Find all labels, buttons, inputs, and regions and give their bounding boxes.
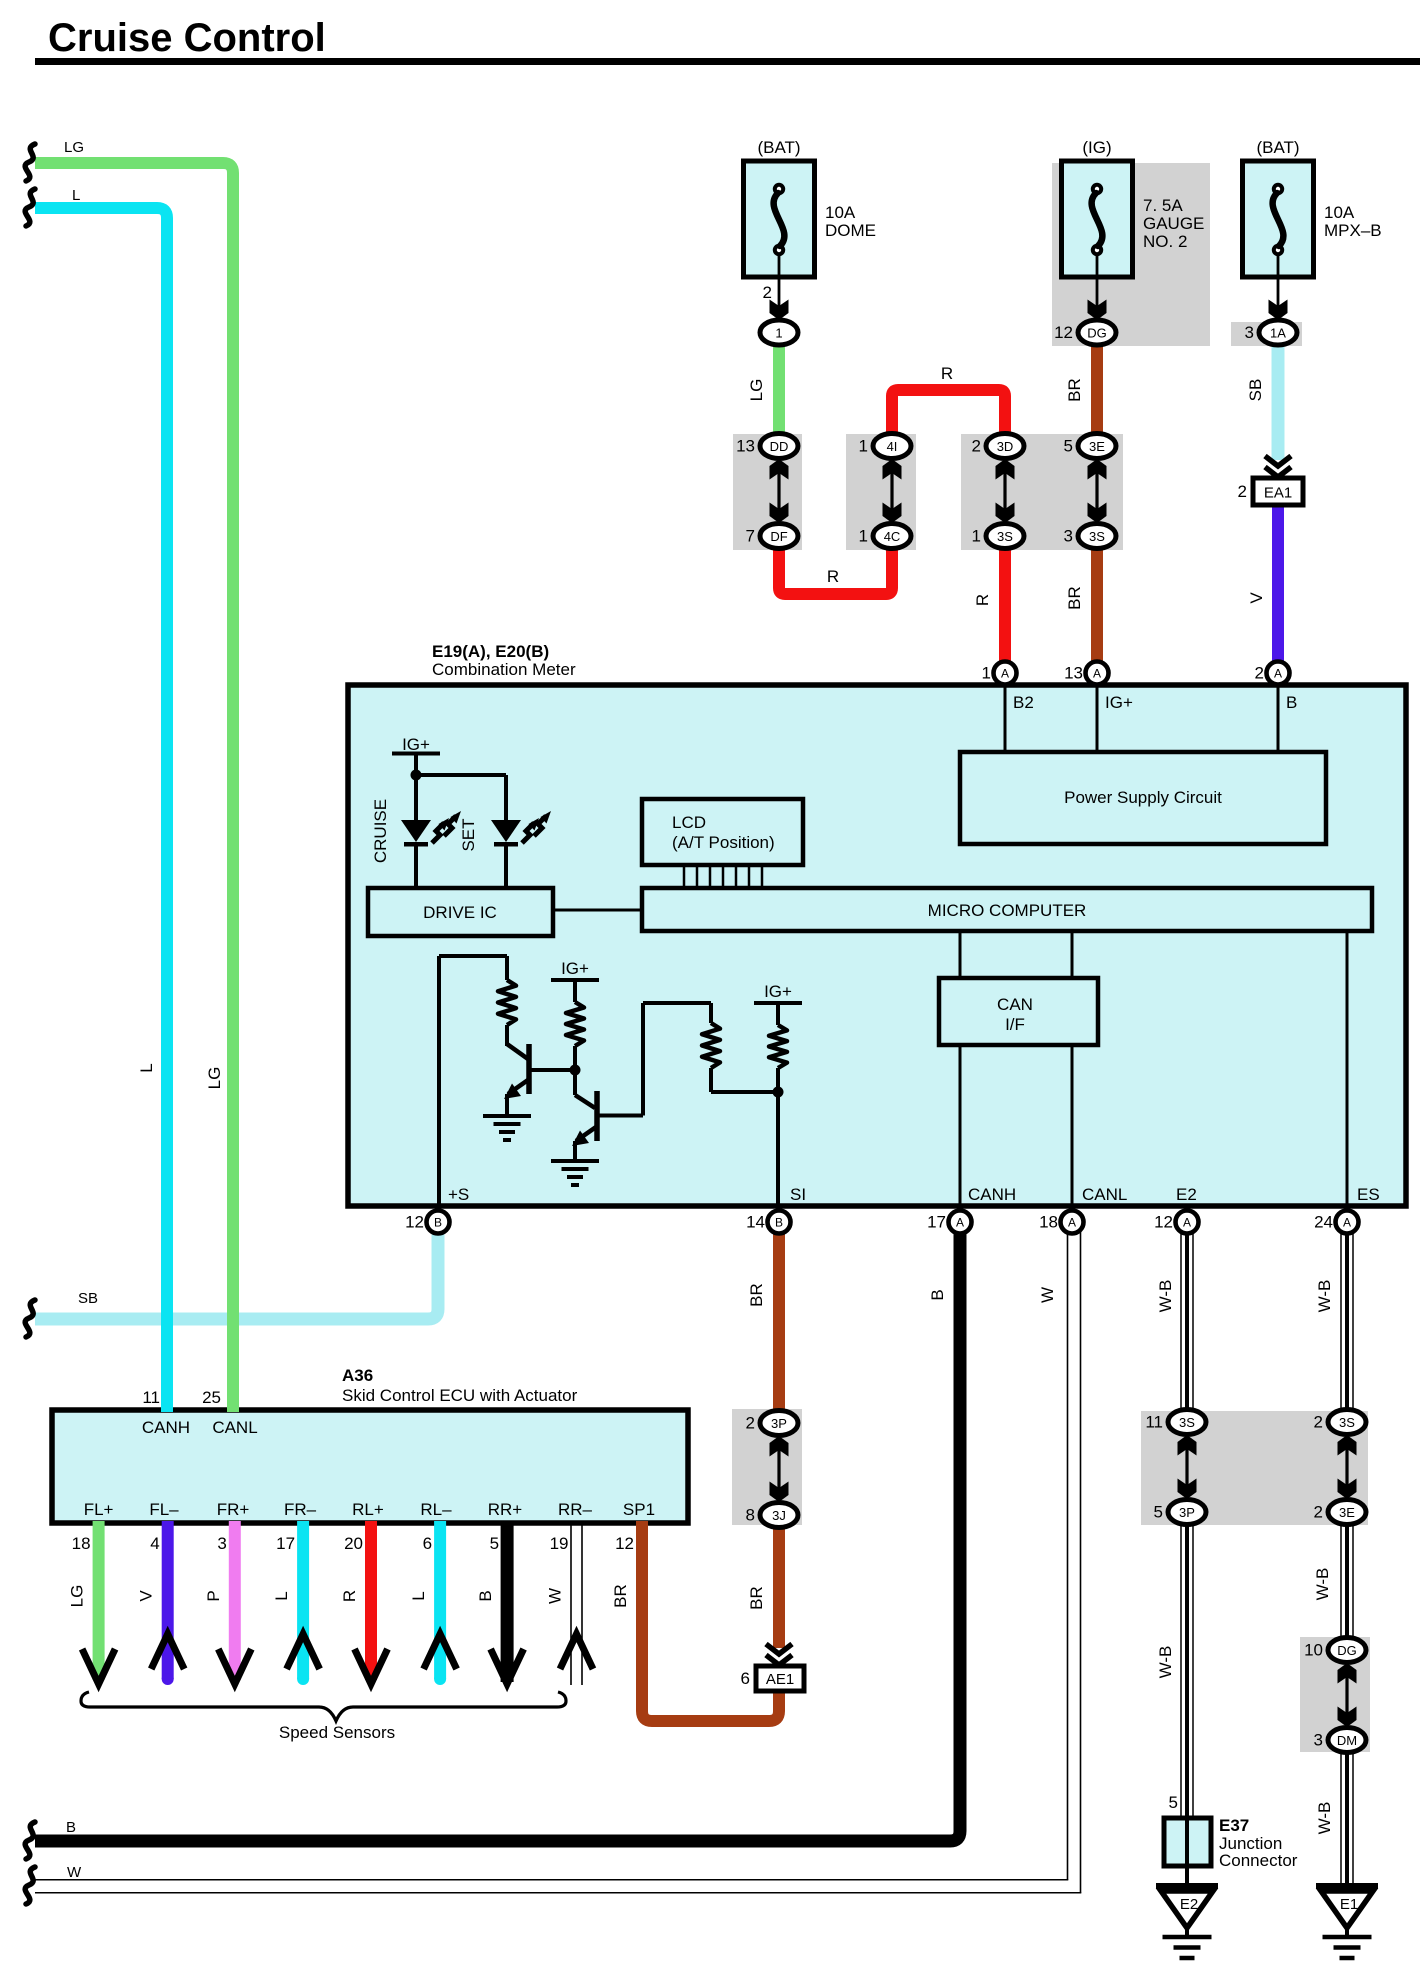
svg-text:3P: 3P [771, 1416, 787, 1431]
svg-text:CANL: CANL [212, 1418, 257, 1437]
svg-text:Cruise Control: Cruise Control [48, 16, 326, 60]
svg-text:4I: 4I [887, 439, 898, 454]
svg-text:LG: LG [747, 379, 766, 402]
svg-text:LG: LG [205, 1067, 224, 1090]
svg-text:DF: DF [770, 529, 787, 544]
svg-text:AE1: AE1 [766, 1671, 794, 1688]
svg-text:18: 18 [1039, 1213, 1058, 1232]
svg-text:SP1: SP1 [623, 1500, 655, 1519]
svg-text:SB: SB [1246, 379, 1265, 402]
svg-text:17: 17 [927, 1213, 946, 1232]
svg-text:B: B [928, 1289, 947, 1300]
svg-text:3J: 3J [772, 1508, 786, 1523]
svg-text:2: 2 [763, 283, 772, 302]
svg-text:3E: 3E [1089, 439, 1105, 454]
svg-text:8: 8 [746, 1506, 755, 1525]
svg-text:12: 12 [1154, 1213, 1173, 1232]
svg-text:R: R [340, 1590, 359, 1602]
svg-text:RL–: RL– [420, 1500, 452, 1519]
svg-text:B: B [66, 1819, 76, 1836]
svg-text:2: 2 [1314, 1503, 1323, 1522]
svg-text:6: 6 [741, 1669, 750, 1688]
svg-text:5: 5 [490, 1534, 499, 1553]
svg-text:B: B [476, 1590, 495, 1601]
svg-text:10: 10 [1304, 1641, 1323, 1660]
svg-text:25: 25 [202, 1388, 221, 1407]
svg-text:A36: A36 [342, 1366, 373, 1385]
svg-text:DRIVE IC: DRIVE IC [423, 903, 497, 922]
svg-text:E1: E1 [1340, 1896, 1358, 1913]
svg-text:IG+: IG+ [561, 959, 589, 978]
svg-text:2: 2 [1314, 1413, 1323, 1432]
svg-text:3S: 3S [1089, 529, 1105, 544]
svg-text:LCD: LCD [672, 813, 706, 832]
svg-text:W: W [1038, 1287, 1057, 1303]
svg-text:W: W [546, 1588, 565, 1604]
svg-text:W-B: W-B [1156, 1280, 1175, 1313]
svg-text:FR–: FR– [284, 1500, 317, 1519]
svg-text:10A: 10A [825, 203, 856, 222]
svg-text:A: A [1183, 1216, 1191, 1230]
svg-text:P: P [204, 1590, 223, 1601]
svg-text:GAUGE: GAUGE [1143, 214, 1204, 233]
svg-text:BR: BR [747, 1586, 766, 1610]
svg-text:A: A [1068, 1216, 1076, 1230]
svg-text:E19(A), E20(B): E19(A), E20(B) [432, 642, 549, 661]
svg-text:DOME: DOME [825, 221, 876, 240]
svg-text:W-B: W-B [1156, 1646, 1175, 1679]
svg-text:ES: ES [1357, 1185, 1380, 1204]
svg-text:R: R [827, 567, 839, 586]
svg-text:3: 3 [1064, 527, 1073, 546]
svg-text:4C: 4C [884, 529, 901, 544]
svg-text:Speed Sensors: Speed Sensors [279, 1723, 395, 1742]
svg-text:Connector: Connector [1219, 1851, 1298, 1870]
svg-text:FL–: FL– [149, 1500, 179, 1519]
svg-text:B2: B2 [1013, 693, 1034, 712]
svg-text:L: L [137, 1063, 156, 1072]
svg-text:2: 2 [1238, 482, 1247, 501]
svg-text:5: 5 [1169, 1793, 1178, 1812]
svg-text:1: 1 [775, 326, 782, 341]
svg-text:24: 24 [1314, 1213, 1333, 1232]
svg-text:E2: E2 [1180, 1896, 1198, 1913]
svg-text:5: 5 [1064, 437, 1073, 456]
svg-text:1: 1 [982, 664, 991, 683]
svg-text:LG: LG [68, 1585, 87, 1608]
svg-text:DD: DD [770, 439, 789, 454]
svg-text:(BAT): (BAT) [1256, 138, 1299, 157]
svg-text:DG: DG [1087, 326, 1107, 341]
svg-text:Skid Control ECU with Actuator: Skid Control ECU with Actuator [342, 1386, 578, 1405]
svg-text:7. 5A: 7. 5A [1143, 196, 1183, 215]
svg-text:14: 14 [746, 1213, 765, 1232]
svg-text:CAN: CAN [997, 995, 1033, 1014]
svg-text:A: A [1343, 1216, 1351, 1230]
svg-text:+S: +S [448, 1185, 469, 1204]
svg-text:3: 3 [217, 1534, 226, 1553]
svg-text:1: 1 [972, 527, 981, 546]
svg-text:(BAT): (BAT) [757, 138, 800, 157]
svg-text:NO. 2: NO. 2 [1143, 232, 1187, 251]
svg-text:IG+: IG+ [764, 982, 792, 1001]
svg-text:17: 17 [276, 1534, 295, 1553]
svg-text:CANH: CANH [142, 1418, 190, 1437]
svg-text:RR+: RR+ [488, 1500, 523, 1519]
svg-text:18: 18 [72, 1534, 91, 1553]
svg-text:5: 5 [1154, 1503, 1163, 1522]
svg-text:2: 2 [972, 437, 981, 456]
svg-text:BR: BR [747, 1283, 766, 1307]
svg-text:12: 12 [615, 1534, 634, 1553]
svg-text:W-B: W-B [1315, 1280, 1334, 1313]
svg-text:B: B [1286, 693, 1297, 712]
svg-text:13: 13 [736, 437, 755, 456]
svg-text:R: R [973, 594, 992, 606]
svg-text:10A: 10A [1324, 203, 1355, 222]
svg-text:12: 12 [1054, 323, 1073, 342]
svg-text:IG+: IG+ [402, 735, 430, 754]
svg-text:IG+: IG+ [1105, 693, 1133, 712]
svg-text:CANH: CANH [968, 1185, 1016, 1204]
svg-text:6: 6 [423, 1534, 432, 1553]
svg-text:W-B: W-B [1315, 1802, 1334, 1835]
svg-text:B: B [775, 1216, 783, 1230]
svg-text:MPX–B: MPX–B [1324, 221, 1382, 240]
svg-text:L: L [72, 187, 80, 204]
svg-text:4: 4 [150, 1534, 159, 1553]
svg-text:12: 12 [405, 1213, 424, 1232]
svg-text:V: V [137, 1590, 156, 1602]
svg-text:(IG): (IG) [1082, 138, 1111, 157]
svg-text:3P: 3P [1179, 1505, 1195, 1520]
svg-text:3: 3 [1245, 323, 1254, 342]
svg-text:E37: E37 [1219, 1816, 1249, 1835]
svg-text:3S: 3S [1339, 1415, 1355, 1430]
svg-text:L: L [409, 1591, 428, 1600]
svg-text:11: 11 [1145, 1413, 1163, 1432]
svg-text:A: A [1093, 667, 1101, 681]
svg-text:A: A [1274, 667, 1282, 681]
svg-text:BR: BR [611, 1584, 630, 1608]
svg-text:1A: 1A [1270, 326, 1286, 341]
svg-text:SI: SI [790, 1185, 806, 1204]
svg-text:CANL: CANL [1082, 1185, 1127, 1204]
svg-text:1: 1 [859, 437, 868, 456]
svg-text:Combination Meter: Combination Meter [432, 660, 576, 679]
svg-text:20: 20 [344, 1534, 363, 1553]
svg-text:E2: E2 [1176, 1185, 1197, 1204]
svg-text:RR–: RR– [558, 1500, 593, 1519]
svg-text:R: R [941, 364, 953, 383]
svg-text:3: 3 [1314, 1731, 1323, 1750]
svg-text:3D: 3D [997, 439, 1014, 454]
svg-text:RL+: RL+ [352, 1500, 384, 1519]
svg-text:SB: SB [78, 1290, 98, 1307]
svg-text:11: 11 [142, 1388, 160, 1407]
svg-text:L: L [272, 1591, 291, 1600]
svg-text:DM: DM [1337, 1733, 1357, 1748]
svg-text:19: 19 [550, 1534, 569, 1553]
svg-text:V: V [1247, 592, 1266, 604]
svg-text:W: W [67, 1864, 82, 1881]
svg-text:3E: 3E [1339, 1505, 1355, 1520]
svg-text:1: 1 [859, 527, 868, 546]
svg-text:DG: DG [1337, 1643, 1357, 1658]
svg-text:3S: 3S [1179, 1415, 1195, 1430]
svg-text:FL+: FL+ [84, 1500, 114, 1519]
svg-text:BR: BR [1065, 378, 1084, 402]
svg-text:SET: SET [459, 818, 478, 851]
svg-text:I/F: I/F [1005, 1015, 1025, 1034]
svg-text:B: B [434, 1216, 442, 1230]
svg-text:(A/T Position): (A/T Position) [672, 833, 775, 852]
svg-text:2: 2 [1255, 664, 1264, 683]
svg-text:7: 7 [746, 527, 755, 546]
svg-text:13: 13 [1064, 664, 1083, 683]
svg-text:W-B: W-B [1313, 1568, 1332, 1601]
svg-text:A: A [1001, 667, 1009, 681]
svg-text:FR+: FR+ [217, 1500, 250, 1519]
svg-text:A: A [956, 1216, 964, 1230]
svg-text:2: 2 [746, 1414, 755, 1433]
svg-text:LG: LG [64, 139, 84, 156]
svg-text:3S: 3S [997, 529, 1013, 544]
svg-text:MICRO COMPUTER: MICRO COMPUTER [928, 901, 1087, 920]
svg-text:EA1: EA1 [1264, 485, 1292, 502]
svg-text:CRUISE: CRUISE [371, 799, 390, 863]
svg-text:Power Supply Circuit: Power Supply Circuit [1064, 788, 1222, 807]
svg-text:BR: BR [1065, 586, 1084, 610]
